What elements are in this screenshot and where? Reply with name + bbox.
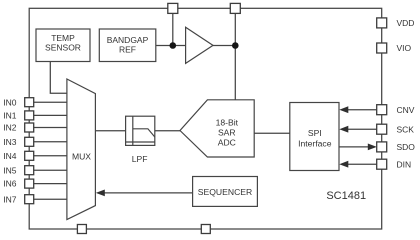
svg-text:IN1: IN1 — [3, 111, 16, 121]
18-Bit SAR ADC block — [180, 100, 254, 157]
svg-text:SAR: SAR — [218, 128, 236, 138]
pin IN3 — [3, 137, 33, 147]
wire IN5 to MUX — [34, 169, 67, 171]
svg-text:BANDGAP: BANDGAP — [107, 35, 149, 45]
pin SDO — [377, 142, 416, 152]
svg-text:18-Bit: 18-Bit — [216, 118, 239, 128]
bottom pin 1 (GND) — [77, 225, 86, 234]
wire IN0 to MUX — [34, 101, 67, 103]
svg-text:REF: REF — [119, 45, 136, 55]
arrowhead SCK into SPI — [339, 126, 348, 133]
svg-text:IN0: IN0 — [3, 97, 16, 107]
wire IN6 to MUX — [34, 183, 67, 185]
svg-text:Interface: Interface — [298, 138, 332, 148]
svg-text:SENSOR: SENSOR — [45, 43, 81, 53]
svg-text:IN3: IN3 — [3, 137, 16, 147]
wire top pin 2 down to ADC — [234, 13, 236, 99]
pin VDD — [377, 18, 415, 28]
BANDGAP REF block — [99, 29, 156, 62]
pin IN0 — [3, 97, 33, 107]
wire SEQUENCER to MUX — [104, 192, 192, 194]
pin IN1 — [3, 111, 33, 121]
top pin 1 (REF) — [168, 3, 178, 13]
svg-text:SEQUENCER: SEQUENCER — [198, 187, 252, 197]
wire ADC to SPI interface — [254, 132, 290, 134]
TEMP SENSOR block — [36, 29, 90, 62]
svg-text:IN2: IN2 — [3, 123, 16, 133]
svg-text:IN6: IN6 — [3, 179, 16, 189]
svg-text:ADC: ADC — [218, 137, 236, 147]
svg-text:IN7: IN7 — [3, 194, 16, 204]
svg-text:CNV: CNV — [397, 105, 415, 115]
svg-text:LPF: LPF — [132, 154, 148, 164]
svg-text:VDD: VDD — [397, 18, 415, 28]
wire SCK pin to SPI — [348, 128, 377, 130]
wire IN1 to MUX — [34, 114, 67, 116]
svg-text:VIO: VIO — [397, 43, 412, 53]
svg-text:DIN: DIN — [397, 159, 412, 169]
pin IN5 — [3, 165, 33, 175]
wire IN3 to MUX — [34, 141, 67, 143]
arrowhead DIN into SPI — [339, 161, 348, 168]
wire LPF to ADC — [155, 130, 180, 132]
pin IN2 — [3, 123, 33, 133]
arrowhead sequencer into MUX — [96, 190, 105, 197]
wire REF top pin 1 down to node — [172, 13, 174, 45]
pin VIO — [377, 43, 412, 53]
wire buffer output to node — [213, 45, 235, 47]
top pin 2 (REFBUF) — [230, 3, 240, 13]
SEQUENCER block — [193, 177, 258, 207]
pin CNV — [377, 105, 415, 115]
pin IN6 — [3, 179, 33, 189]
arrowhead CNV into SPI — [339, 106, 348, 113]
wire IN4 to MUX — [34, 155, 67, 157]
buffer amplifier triangle — [186, 27, 213, 63]
wire bandgap ref to buffer input — [156, 45, 186, 47]
svg-text:SCK: SCK — [397, 124, 415, 134]
bottom pin 2 (GND) — [201, 225, 210, 234]
wire IN2 to MUX — [34, 127, 67, 129]
pin DIN — [377, 159, 411, 169]
arrowhead SDO out — [368, 144, 377, 151]
chip outline border — [29, 8, 382, 229]
junction node at buffer output — [232, 42, 239, 49]
svg-text:IN4: IN4 — [3, 151, 16, 161]
svg-text:TEMP: TEMP — [51, 33, 75, 43]
svg-text:IN5: IN5 — [3, 165, 16, 175]
junction node on REF line — [170, 42, 177, 49]
pin SCK — [377, 124, 415, 134]
svg-text:SC1481: SC1481 — [326, 190, 366, 202]
svg-text:SDO: SDO — [397, 142, 416, 152]
wire DIN pin to SPI — [348, 163, 377, 165]
SPI Interface block — [290, 103, 339, 171]
pin IN4 — [3, 151, 33, 161]
wire temp sensor to MUX — [50, 62, 67, 94]
wire IN7 to MUX — [34, 198, 67, 200]
svg-text:SPI: SPI — [308, 128, 322, 138]
wire CNV pin to SPI — [348, 109, 377, 111]
MUX block — [67, 79, 96, 220]
svg-text:MUX: MUX — [72, 151, 91, 161]
wire SPI to SDO pin — [339, 146, 368, 148]
pin IN7 — [3, 194, 33, 204]
LPF block — [126, 116, 155, 164]
wire MUX to LPF — [95, 130, 125, 132]
